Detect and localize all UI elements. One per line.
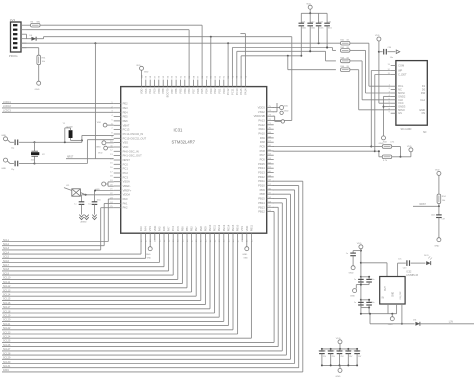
wire SCL4 net [2, 240, 141, 254]
svg-text:PE14: PE14 [226, 224, 230, 231]
IC IC32 LP2985-33 voltage regulator [380, 271, 419, 304]
resistor R31 [37, 55, 46, 81]
svg-text:PC8: PC8 [260, 149, 266, 153]
svg-text:VDD: VDD [357, 243, 362, 245]
ground SD GND pins [379, 96, 391, 144]
svg-text:LCDC1: LCDC1 [3, 101, 12, 104]
svg-text:2: 2 [389, 88, 391, 90]
svg-text:C4: C4 [318, 350, 320, 352]
resistor R34 [437, 194, 446, 206]
resistor R41 [340, 40, 350, 45]
svg-text:PE15: PE15 [231, 224, 235, 231]
svg-text:VDD: VDD [98, 152, 103, 154]
svg-text:PD13: PD13 [258, 171, 265, 175]
supply VDD pullups [407, 146, 413, 152]
svg-text:PE11: PE11 [213, 224, 217, 231]
svg-text:94: 94 [167, 75, 169, 78]
svg-text:5: 5 [111, 119, 113, 121]
capacitor C40 VREF+ [88, 191, 113, 220]
svg-text:PA0: PA0 [123, 197, 128, 201]
capacitor C38 [1, 135, 35, 149]
svg-text:100n: 100n [311, 28, 315, 30]
svg-text:10n: 10n [332, 350, 335, 352]
svg-text:PD1: PD1 [217, 88, 221, 94]
svg-text:VDD: VDD [435, 170, 440, 172]
svg-text:PD15: PD15 [258, 162, 265, 166]
wire SCL24 net [2, 240, 251, 338]
svg-text:PB2: PB2 [190, 226, 194, 231]
capacitor bank C44-C48 with VDD and ground [318, 338, 362, 378]
svg-text:98: 98 [150, 75, 152, 78]
wire R42 to SD [350, 50, 391, 93]
wire NRST stub [413, 204, 440, 215]
svg-text:100n: 100n [328, 28, 332, 30]
svg-text:ON_OFF: ON_OFF [400, 290, 402, 299]
svg-text:C34: C34 [328, 22, 331, 24]
svg-text:PA1: PA1 [123, 201, 128, 205]
svg-text:PA3: PA3 [139, 226, 143, 231]
svg-text:GND2: GND2 [398, 94, 406, 98]
svg-text:100n: 100n [97, 199, 101, 201]
svg-text:SCL20: SCL20 [3, 319, 11, 322]
svg-text:PC13: PC13 [123, 128, 130, 132]
svg-text:PC6: PC6 [260, 158, 266, 162]
wire SCL23 net [2, 240, 238, 334]
svg-text:4: 4 [111, 115, 113, 117]
svg-text:PB14: PB14 [258, 201, 265, 205]
svg-text:IC31: IC31 [174, 128, 184, 133]
svg-text:DATA: DATA [3, 369, 9, 372]
svg-text:NRST: NRST [67, 156, 74, 158]
svg-text:PE12: PE12 [217, 224, 221, 231]
svg-text:SCL13: SCL13 [3, 289, 11, 292]
svg-text:NRST: NRST [123, 158, 131, 162]
wire PROG pins 3-4 join [26, 34, 28, 39]
wire SCL8 net [2, 240, 169, 271]
svg-text:10n: 10n [398, 259, 401, 261]
svg-text:LCDC3: LCDC3 [3, 110, 12, 113]
svg-text:VSS2: VSS2 [258, 110, 265, 114]
IC IC31 STM32L4R7 microcontroller [110, 74, 274, 233]
svg-text:MOSI: MOSI [398, 91, 405, 95]
capacitor C43 bypass [398, 259, 426, 277]
svg-text:PC15-OSC32_OUT: PC15-OSC32_OUT [123, 136, 147, 140]
svg-text:C4: C4 [336, 350, 338, 352]
svg-text:PE1: PE1 [148, 88, 152, 93]
svg-text:PD0: PD0 [222, 88, 226, 94]
svg-text:PB7: PB7 [170, 88, 174, 93]
capacitor C41 VDDA [74, 195, 113, 224]
svg-text:PA11: PA11 [259, 127, 266, 131]
wire SCL31 net [2, 186, 299, 368]
ground IC31 bottom VSS [242, 240, 249, 259]
svg-text:PC0: PC0 [123, 162, 129, 166]
svg-text:100n: 100n [371, 279, 375, 281]
svg-text:SCL7: SCL7 [3, 264, 10, 267]
crystal X2 32kHz [31, 151, 46, 161]
svg-text:D31: D31 [413, 319, 416, 321]
wire SCL21 net [2, 240, 228, 326]
wire regulator grounds [388, 304, 397, 317]
svg-text:DL31: DL31 [424, 255, 429, 257]
svg-text:PE8: PE8 [199, 226, 203, 231]
ground VSSA VREF- [95, 182, 114, 191]
wire SCL26 net [2, 207, 278, 347]
svg-text:10k: 10k [42, 61, 46, 63]
svg-text:C37: C37 [442, 219, 445, 221]
svg-text:680: 680 [37, 21, 41, 23]
wire DATA net [2, 181, 303, 372]
svg-text:OUT: OUT [385, 286, 387, 291]
svg-text:VDDUSB: VDDUSB [254, 114, 265, 118]
svg-text:D6: D6 [30, 35, 34, 37]
wire PROG pin6 down [21, 48, 39, 56]
svg-text:PD6: PD6 [196, 88, 200, 94]
svg-text:93: 93 [172, 75, 174, 78]
svg-text:PE13: PE13 [222, 224, 226, 231]
svg-text:CLA: CLA [420, 99, 425, 102]
svg-text:GND: GND [1, 168, 6, 170]
svg-text:VDD: VDD [153, 226, 157, 232]
svg-text:PA4: PA4 [144, 226, 148, 231]
svg-text:VDD: VDD [407, 146, 412, 148]
svg-text:GND: GND [284, 110, 289, 112]
svg-text:X2: X2 [42, 154, 45, 156]
capacitor C31 [299, 13, 307, 57]
capacitor C36 [379, 47, 400, 59]
svg-text:GND: GND [96, 146, 101, 148]
wire SCL11 net [2, 240, 182, 284]
svg-text:PA13: PA13 [258, 119, 265, 123]
supply VDD3 VSS2 VDDUSB [273, 103, 289, 123]
svg-text:STM32L4R7: STM32L4R7 [172, 140, 196, 145]
wire top pin 43 vertical [227, 43, 229, 79]
svg-text:VSS: VSS [144, 88, 148, 93]
svg-text:C4: C4 [327, 350, 329, 352]
svg-text:100n: 100n [302, 28, 306, 30]
svg-text:PA7: PA7 [167, 226, 171, 231]
svg-text:PB5: PB5 [179, 88, 183, 93]
svg-text:10u: 10u [390, 57, 393, 59]
wire crystal X2 node [34, 142, 36, 163]
svg-text:SCL2: SCL2 [3, 243, 10, 246]
svg-text:99: 99 [146, 75, 148, 78]
svg-text:PE3: PE3 [123, 106, 129, 110]
wire OSC32 out [35, 140, 114, 164]
svg-text:PA9: PA9 [260, 136, 265, 140]
LED DL31 [424, 255, 432, 265]
svg-text:18: 18 [110, 176, 113, 178]
svg-text:4.7k: 4.7k [390, 142, 395, 144]
svg-text:GND: GND [144, 72, 149, 74]
svg-text:SCL31: SCL31 [3, 365, 11, 368]
svg-text:VDD: VDD [284, 106, 289, 108]
svg-text:GND: GND [243, 258, 248, 260]
svg-text:SCL24: SCL24 [3, 336, 11, 339]
svg-text:L3V: L3V [449, 320, 454, 323]
svg-text:VDD: VDD [375, 35, 380, 37]
wire SCL22 net [2, 240, 233, 330]
wire OSC32 in [35, 135, 114, 143]
svg-text:SCL8: SCL8 [3, 268, 10, 271]
svg-text:1u: 1u [354, 279, 356, 281]
wire net to R43 [237, 50, 336, 79]
svg-text:17: 17 [110, 171, 113, 173]
wire SCL19 net [2, 240, 219, 317]
svg-text:81: 81 [224, 75, 226, 78]
svg-text:SCL18: SCL18 [3, 310, 11, 313]
wire net to R44 [241, 55, 336, 80]
resistor R43 [340, 57, 350, 62]
svg-text:PH0-OSC_IN: PH0-OSC_IN [123, 149, 139, 153]
wire SCL13 net [2, 240, 192, 292]
wire PA14 SWCLK vertical [240, 34, 245, 80]
capacitor C32 [307, 13, 315, 52]
resistor R32 [382, 142, 400, 157]
svg-text:12p: 12p [11, 169, 14, 171]
svg-text:4.7k: 4.7k [383, 160, 388, 162]
wire SCL17 net [2, 240, 210, 309]
svg-text:PH1-OSC_OUT: PH1-OSC_OUT [123, 154, 142, 158]
svg-text:SCL14: SCL14 [3, 294, 11, 297]
capacitor C37 [431, 214, 445, 237]
svg-text:VBAT: VBAT [123, 123, 130, 127]
wire SCL29 net [2, 194, 291, 359]
ground NRST cap [434, 238, 441, 248]
svg-text:GND: GND [434, 245, 439, 247]
wire SWDIO net to PA13 [42, 36, 292, 121]
svg-text:SCL15: SCL15 [3, 298, 11, 301]
svg-text:3V3: 3V3 [10, 18, 16, 22]
svg-text:AGND: AGND [81, 221, 88, 224]
wire SCL2 net [2, 203, 114, 246]
wire SCL15 net [2, 240, 201, 301]
svg-text:VSSA: VSSA [123, 180, 130, 184]
svg-text:PA2: PA2 [123, 206, 128, 210]
svg-text:PE7: PE7 [194, 226, 198, 231]
wire regulator IN net [361, 263, 387, 277]
svg-text:13: 13 [387, 64, 390, 66]
svg-text:PC3: PC3 [123, 175, 129, 179]
svg-text:PC4: PC4 [171, 226, 175, 232]
svg-text:96: 96 [159, 75, 161, 78]
svg-text:GND: GND [1, 135, 6, 137]
svg-text:15: 15 [110, 163, 113, 165]
svg-text:R32: R32 [383, 142, 388, 144]
svg-text:SCL5: SCL5 [3, 256, 10, 259]
svg-text:SCL6: SCL6 [3, 260, 10, 263]
svg-text:1u: 1u [346, 253, 348, 255]
svg-text:PB11: PB11 [249, 224, 253, 231]
wire WP net PC9 [273, 71, 391, 148]
svg-text:85: 85 [206, 75, 208, 78]
svg-text:SCL17: SCL17 [3, 306, 11, 309]
svg-text:VDD: VDD [306, 4, 311, 6]
svg-text:PROG: PROG [9, 54, 19, 58]
supply VDD SD card [375, 35, 391, 103]
wire 3V3 long net [21, 42, 341, 44]
wire C_DET net PC8 [273, 75, 391, 157]
ground IC31 bottom VSS [146, 240, 153, 259]
wire SWD line2 to top pin [27, 30, 190, 80]
svg-text:100n: 100n [319, 28, 323, 30]
wire net to R42 [232, 47, 336, 80]
svg-text:83: 83 [215, 75, 217, 78]
svg-text:PB0: PB0 [180, 226, 184, 231]
ground VSS below R31 [35, 81, 41, 91]
svg-text:10n: 10n [340, 350, 343, 352]
svg-text:MISO: MISO [398, 108, 405, 112]
svg-text:10k: 10k [442, 200, 446, 202]
svg-text:PD5: PD5 [200, 88, 204, 94]
svg-text:PD3: PD3 [209, 88, 213, 94]
svg-text:PC1: PC1 [123, 167, 129, 171]
svg-text:RCL: RCL [398, 84, 404, 88]
svg-text:VSS: VSS [148, 226, 152, 231]
wire SCL18 net [2, 240, 215, 313]
svg-text:PB10: PB10 [236, 224, 240, 231]
svg-text:16: 16 [110, 167, 113, 169]
svg-text:25V: 25V [323, 356, 327, 358]
wire SCL16 net [2, 240, 205, 305]
crystal Y1 32.768 [63, 123, 82, 142]
svg-text:PD4: PD4 [204, 88, 208, 94]
connector PROG 6-pin header [9, 18, 27, 58]
svg-text:VDD: VDD [245, 226, 249, 232]
svg-text:SCL10: SCL10 [3, 277, 11, 280]
svg-text:PA5: PA5 [157, 226, 161, 231]
svg-text:PA8: PA8 [260, 140, 265, 144]
svg-text:12p: 12p [11, 148, 14, 150]
svg-text:SCL4: SCL4 [3, 251, 10, 254]
capacitor C39 [1, 158, 35, 171]
svg-text:PC7: PC7 [260, 153, 266, 157]
supply VDD pin11 [98, 146, 114, 154]
wire R41 to SD [350, 43, 391, 86]
svg-text:PC14-OSC32_IN: PC14-OSC32_IN [123, 132, 144, 136]
svg-text:WP: WP [398, 69, 402, 73]
svg-text:PB1: PB1 [185, 226, 189, 231]
svg-text:PB8: PB8 [161, 88, 165, 93]
svg-text:C31: C31 [302, 22, 305, 24]
svg-text:CLK: CLK [398, 98, 403, 102]
svg-text:PC9: PC9 [260, 145, 266, 149]
svg-text:13: 13 [110, 154, 113, 156]
svg-text:PA14: PA14 [243, 88, 247, 95]
svg-text:C32: C32 [311, 22, 314, 24]
svg-text:10u: 10u [88, 203, 91, 205]
svg-text:PE0: PE0 [153, 88, 157, 93]
svg-text:PE9: PE9 [203, 226, 207, 231]
diode D6 [27, 35, 42, 41]
svg-text:GND: GND [242, 254, 247, 256]
wire SWD line1 to top pin [44, 25, 202, 79]
svg-text:SD: SD [423, 131, 427, 134]
svg-text:25V: 25V [332, 356, 336, 358]
svg-text:SCL3: SCL3 [3, 247, 10, 250]
svg-text:PD2: PD2 [213, 88, 217, 94]
svg-text:C_DET: C_DET [398, 73, 407, 77]
svg-text:9: 9 [111, 137, 113, 139]
svg-text:PE10: PE10 [208, 224, 212, 231]
svg-text:VDD: VDD [136, 65, 141, 67]
resistor R44 [340, 66, 350, 71]
svg-text:SCL9: SCL9 [3, 272, 10, 275]
svg-text:NRST: NRST [420, 204, 427, 206]
svg-text:PD9: PD9 [260, 188, 266, 192]
ground cap row1 [350, 284, 362, 298]
svg-text:PC5: PC5 [176, 226, 180, 232]
wire SCL14 net [2, 240, 196, 296]
wire LCDC1 [2, 101, 114, 104]
svg-text:IN: IN [382, 297, 385, 300]
connector J31 SD card socket [387, 61, 427, 135]
inductor L31 ferrite [64, 185, 96, 196]
wire SCL9 net [2, 240, 173, 275]
svg-text:PA10: PA10 [258, 132, 265, 136]
svg-text:SCL30: SCL30 [3, 361, 11, 364]
svg-text:90: 90 [185, 75, 187, 78]
wire SCL7 net [2, 240, 164, 267]
wire SCL25 net [2, 212, 274, 343]
svg-text:PB9: PB9 [157, 88, 161, 93]
svg-text:GND: GND [349, 273, 354, 275]
svg-text:88: 88 [193, 75, 195, 78]
capacitor C33 [316, 13, 324, 43]
svg-text:SCL27: SCL27 [3, 348, 11, 351]
svg-text:SCL12: SCL12 [3, 285, 11, 288]
svg-text:PB6: PB6 [174, 88, 178, 93]
svg-text:SD-CARD: SD-CARD [401, 128, 412, 131]
svg-text:IC32: IC32 [406, 271, 412, 274]
svg-text:PD10: PD10 [258, 184, 265, 188]
wire NRST from PROG [66, 43, 114, 159]
svg-text:DS: DS [422, 112, 426, 115]
svg-text:SCL16: SCL16 [3, 302, 11, 305]
wire SCL20 net [2, 240, 224, 322]
svg-text:95: 95 [163, 75, 165, 78]
supply VDD NRST [435, 170, 441, 195]
svg-text:R31: R31 [42, 57, 47, 59]
wire R43 to SD [350, 61, 391, 100]
svg-text:VREF+: VREF+ [123, 188, 132, 192]
wire SCL5 net [2, 240, 146, 258]
svg-text:GND: GND [350, 296, 355, 298]
svg-text:C43: C43 [403, 268, 406, 270]
wire SCL12 net [2, 240, 187, 288]
svg-text:VDD: VDD [123, 145, 129, 149]
svg-text:DW: DW [421, 92, 426, 95]
wire L3V output net [420, 320, 474, 323]
svg-text:LCDC2: LCDC2 [3, 105, 12, 108]
ground VSS pin10 [96, 141, 114, 149]
svg-text:PE6: PE6 [123, 119, 129, 123]
svg-text:VREF-: VREF- [123, 184, 131, 188]
svg-text:10n: 10n [323, 350, 326, 352]
supply VDD top rail [301, 4, 327, 15]
wire LCDC3 [2, 110, 114, 113]
svg-text:SCL11: SCL11 [3, 281, 11, 284]
svg-text:SCL28: SCL28 [3, 352, 11, 355]
resistor R6 [27, 21, 45, 27]
svg-text:PD12: PD12 [258, 175, 265, 179]
svg-text:10n: 10n [349, 350, 352, 352]
svg-text:NC: NC [398, 88, 402, 92]
svg-text:100n: 100n [431, 214, 435, 216]
svg-text:97: 97 [154, 75, 156, 78]
wire SCL1 net [2, 199, 114, 242]
supply VDD regulator input [357, 243, 363, 314]
